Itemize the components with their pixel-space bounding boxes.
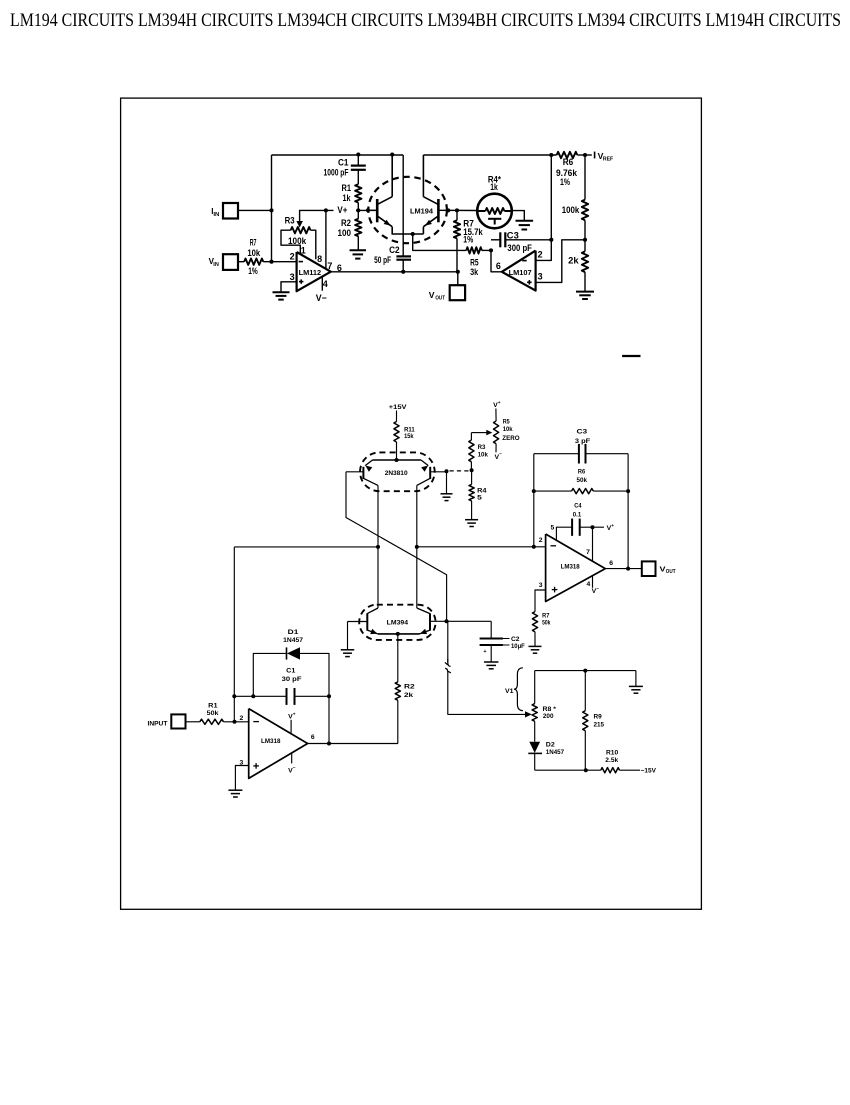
svg-text:1%: 1% [463, 235, 473, 245]
svg-text:+15V: +15V [389, 404, 407, 411]
svg-text:R1: R1 [208, 703, 218, 710]
svg-text:2k: 2k [568, 256, 580, 266]
svg-text:7: 7 [586, 549, 590, 556]
svg-text:R1: R1 [342, 183, 352, 193]
svg-text:1N457: 1N457 [546, 749, 565, 756]
svg-text:10μF: 10μF [511, 643, 525, 650]
svg-text:C4: C4 [574, 502, 582, 509]
svg-text:OUT: OUT [666, 569, 676, 575]
svg-text:R7: R7 [250, 238, 257, 248]
svg-text:V1: V1 [505, 688, 514, 695]
svg-text:OUT: OUT [435, 296, 445, 302]
svg-text:10k: 10k [478, 452, 489, 459]
svg-text:R3: R3 [478, 444, 486, 451]
svg-text:2.5k: 2.5k [605, 757, 618, 764]
svg-text:1: 1 [301, 245, 306, 255]
svg-text:4: 4 [587, 581, 591, 588]
svg-text:R2: R2 [341, 218, 351, 228]
svg-text:2N3810: 2N3810 [385, 470, 408, 477]
svg-text:LM318: LM318 [261, 738, 281, 745]
svg-text:D1: D1 [288, 629, 299, 636]
svg-text:R2: R2 [404, 683, 415, 690]
svg-text:IN: IN [213, 212, 219, 218]
svg-text:IN: IN [213, 262, 219, 268]
svg-text:30 pF: 30 pF [282, 676, 302, 683]
svg-text:200: 200 [543, 713, 554, 720]
svg-text:R6: R6 [578, 469, 586, 476]
svg-text:R3: R3 [285, 215, 295, 225]
svg-text:−: − [293, 766, 296, 771]
svg-text:3k: 3k [470, 267, 479, 277]
svg-text:V−: V− [316, 293, 327, 303]
svg-text:1000 pF: 1000 pF [324, 167, 349, 177]
svg-text:C2: C2 [511, 636, 520, 643]
svg-text:ZERO: ZERO [502, 435, 519, 442]
svg-text:50k: 50k [577, 477, 588, 484]
svg-text:1%: 1% [560, 177, 570, 187]
svg-text:C3: C3 [577, 429, 588, 436]
svg-text:2: 2 [538, 250, 543, 260]
svg-text:5: 5 [551, 524, 555, 531]
svg-text:R9: R9 [594, 714, 603, 721]
svg-text:R4: R4 [477, 488, 487, 495]
svg-text:R6: R6 [563, 157, 574, 167]
svg-text:D2: D2 [546, 741, 555, 748]
svg-text:−15V: −15V [641, 768, 657, 775]
svg-text:+: + [611, 524, 614, 529]
svg-text:50k: 50k [207, 710, 219, 717]
svg-text:1k: 1k [490, 182, 498, 192]
svg-text:C3: C3 [507, 230, 519, 240]
svg-text:100k: 100k [562, 205, 580, 215]
svg-text:R8 *: R8 * [543, 706, 557, 713]
svg-text:2k: 2k [404, 692, 414, 699]
svg-text:6: 6 [609, 560, 613, 567]
svg-text:7: 7 [327, 261, 332, 271]
svg-text:50 pF: 50 pF [374, 255, 391, 265]
svg-text:10k: 10k [247, 248, 261, 258]
svg-text:LM318: LM318 [561, 564, 580, 571]
svg-text:−: − [499, 453, 502, 458]
svg-text:215: 215 [594, 722, 605, 729]
svg-text:3: 3 [539, 582, 543, 589]
svg-text:R7: R7 [542, 612, 550, 619]
svg-text:V+: V+ [337, 205, 347, 215]
svg-text:15k: 15k [404, 433, 414, 440]
svg-text:REF: REF [603, 157, 614, 163]
svg-text:INPUT: INPUT [148, 720, 168, 727]
svg-text:2: 2 [240, 715, 244, 722]
svg-text:300 pF: 300 pF [507, 243, 532, 253]
svg-text:C2: C2 [389, 245, 400, 255]
svg-text:8: 8 [317, 254, 322, 264]
svg-text:3 pF: 3 pF [575, 438, 590, 445]
svg-text:1N457: 1N457 [283, 637, 303, 644]
svg-text:C1: C1 [286, 667, 296, 674]
svg-text:6: 6 [311, 734, 315, 741]
svg-text:3: 3 [538, 272, 543, 282]
svg-text:2: 2 [290, 252, 295, 262]
svg-text:0.1: 0.1 [573, 512, 582, 519]
svg-text:+: + [483, 649, 486, 655]
svg-text:R5: R5 [503, 418, 510, 425]
svg-text:C1: C1 [338, 157, 349, 167]
svg-text:50k: 50k [542, 619, 551, 626]
svg-text:LM194 CIRCUITS LM394H CIRCUITS: LM194 CIRCUITS LM394H CIRCUITS LM394CH C… [10, 11, 841, 31]
svg-text:+: + [293, 713, 296, 718]
svg-text:LM107: LM107 [509, 268, 532, 277]
svg-text:2: 2 [539, 537, 543, 544]
svg-text:100: 100 [338, 228, 352, 238]
svg-text:+: + [498, 401, 501, 406]
svg-text:LM394: LM394 [387, 620, 409, 627]
svg-text:5: 5 [477, 495, 482, 502]
svg-text:LM112: LM112 [299, 268, 322, 277]
svg-text:10k: 10k [503, 426, 513, 433]
svg-text:1k: 1k [343, 193, 352, 203]
svg-text:100k: 100k [288, 236, 307, 246]
svg-text:3: 3 [290, 272, 295, 282]
svg-text:R5: R5 [470, 257, 479, 267]
svg-text:V: V [429, 290, 435, 300]
svg-text:−: − [596, 587, 599, 592]
svg-text:4: 4 [323, 279, 328, 289]
svg-text:1%: 1% [248, 266, 258, 276]
svg-text:R10: R10 [606, 750, 619, 757]
svg-text:LM194: LM194 [410, 206, 434, 215]
svg-text:6: 6 [496, 261, 501, 271]
